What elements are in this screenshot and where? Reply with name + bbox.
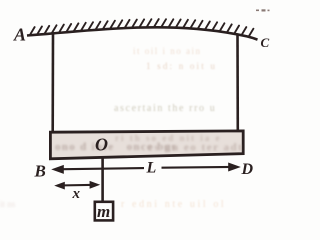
- arrowhead at D: [228, 163, 241, 172]
- svg-text:r edni nte uil ol: r edni nte uil ol: [121, 199, 226, 210]
- mass box: [95, 202, 113, 221]
- top-right small dots: [256, 9, 270, 11]
- rod (shaded bar): [50, 131, 243, 159]
- svg-text:B: B: [34, 162, 46, 181]
- svg-text:C: C: [261, 35, 270, 50]
- arrow line right segment (to D): [162, 166, 234, 169]
- svg-text:it oil i no ain: it oil i no ain: [133, 46, 202, 56]
- svg-text:O: O: [95, 135, 108, 155]
- svg-text:es un eo ter adt: es un eo ter adt: [148, 142, 243, 154]
- svg-text:it ns: it ns: [0, 199, 16, 209]
- x right arrowhead: [90, 181, 101, 189]
- right string: [236, 36, 239, 133]
- arrow line left segment (B arrow): [55, 168, 144, 169]
- ceiling baseline (curved scan): [27, 27, 258, 39]
- svg-text:D: D: [241, 161, 254, 178]
- x left arrowhead: [54, 182, 65, 190]
- svg-text:ascertain the rro u: ascertain the rro u: [114, 103, 216, 114]
- svg-text:m: m: [97, 202, 110, 221]
- hanging string to mass: [101, 157, 104, 202]
- svg-text:L: L: [146, 160, 157, 177]
- svg-text:1 sd: n oit u: 1 sd: n oit u: [146, 61, 217, 71]
- left string: [51, 34, 54, 133]
- svg-text:x: x: [72, 186, 81, 202]
- ceiling hatching: [30, 19, 253, 36]
- svg-text:A: A: [13, 25, 26, 45]
- arrowhead at B: [51, 165, 64, 174]
- x dimension arrow: [57, 184, 97, 187]
